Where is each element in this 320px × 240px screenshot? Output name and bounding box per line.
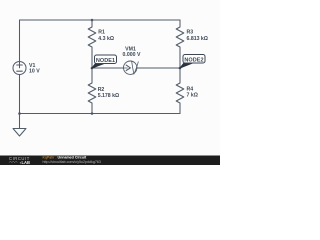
footer bar: [0, 156, 220, 166]
wire mid right: [137, 67, 180, 69]
footer logo CIRCUIT LAB: [9, 156, 30, 165]
svg-text:http://circuitlab.com/c/y5u2pd: http://circuitlab.com/c/y5u2pddkg763: [43, 160, 101, 164]
wire left upper: [19, 20, 21, 62]
svg-text:LAB: LAB: [22, 160, 30, 165]
wire top: [20, 19, 181, 21]
svg-text:10 V: 10 V: [29, 69, 40, 75]
svg-text:6.813 kΩ: 6.813 kΩ: [187, 36, 208, 42]
wire left lower: [19, 75, 21, 114]
footer text: [43, 156, 101, 164]
resistor R2: [88, 68, 96, 114]
node NODE2: [180, 55, 205, 69]
node NODE1: [92, 55, 117, 68]
svg-text:0.000 V: 0.000 V: [123, 52, 141, 58]
labels: [29, 30, 208, 99]
resistor R1: [88, 20, 96, 68]
ground: [19, 114, 21, 129]
svg-text:7 kΩ: 7 kΩ: [187, 92, 198, 98]
junction dots: [18, 19, 181, 115]
svg-text:5.178 kΩ: 5.178 kΩ: [98, 93, 119, 99]
svg-text:NODE2: NODE2: [184, 58, 203, 64]
svg-text:4.3 kΩ: 4.3 kΩ: [98, 36, 114, 42]
voltage source V1: [13, 62, 26, 75]
resistor R3: [176, 20, 184, 68]
wire bottom: [20, 113, 181, 115]
voltmeter VM1: [124, 61, 137, 74]
wire mid left: [92, 67, 124, 69]
svg-text:R1: R1: [98, 30, 105, 36]
svg-text:R3: R3: [187, 30, 194, 36]
resistor R4: [176, 68, 184, 114]
svg-text:NODE1: NODE1: [96, 58, 115, 64]
